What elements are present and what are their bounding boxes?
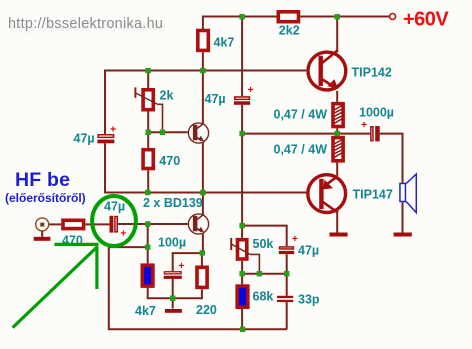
node: Q2 emitter / 100u + 220	[200, 250, 205, 255]
wire: base node down and left to bottom feedback rail	[109, 224, 287, 329]
node: base rail / 2k top	[146, 68, 151, 73]
svg-text:2k: 2k	[160, 89, 174, 103]
svg-text:220: 220	[196, 303, 217, 317]
capacitor 47u (x=242 electrolytic)	[234, 84, 254, 105]
node: divider row / 50k wiper	[257, 271, 262, 276]
node: top rail / x=242	[239, 14, 244, 19]
wire: jack to 470	[49, 223, 61, 225]
node: Q1 base / 2k bottom	[146, 130, 151, 135]
capacitor 47u (input, circled)	[110, 216, 127, 240]
node: output row / x=242	[239, 131, 244, 136]
resistor 470 (input, horizontal)	[63, 220, 84, 228]
svg-text:+: +	[110, 124, 116, 136]
svg-text:4k7: 4k7	[135, 304, 156, 318]
ground (TIP147 collector)	[330, 233, 348, 237]
wire: node row y=132.3 (2k wiper to BD139 base)	[148, 131, 188, 133]
annotation: green arrow	[13, 244, 99, 327]
ground (input jack)	[34, 237, 51, 241]
wire: 68k to bottom rail	[241, 309, 243, 329]
trimmer 50k	[231, 238, 259, 284]
resistor 4k7 (bottom, blue highlighted)	[142, 247, 202, 298]
node: divider row / 50k bottom	[239, 271, 244, 276]
speaker	[400, 174, 416, 233]
node: top rail / TIP142 collector	[335, 14, 340, 19]
transistor Q1 BD139 (bias)	[188, 71, 208, 193]
svg-text:470: 470	[159, 154, 180, 168]
wire: 470 to input cap	[85, 223, 109, 225]
wire: feedback tap row y=225.6 to 47u	[242, 226, 287, 247]
resistor 470 (vertical under 2k)	[143, 132, 153, 192]
node: Q2 base / 4k7 top	[145, 244, 150, 249]
svg-text:100µ: 100µ	[158, 235, 186, 249]
svg-text:2k2: 2k2	[279, 24, 300, 38]
node junctions (green squares)	[145, 14, 340, 332]
svg-text:68k: 68k	[253, 289, 274, 303]
capacitor 100u	[164, 253, 203, 298]
node: feedback tap / x=242	[239, 223, 244, 228]
capacitor 1000u (output electrolytic)	[361, 119, 380, 141]
node: Q1 base / 2k wiper	[160, 130, 165, 135]
svg-text:+: +	[361, 119, 367, 131]
wire: feedback divider row y=273.7	[242, 273, 287, 275]
wire: top rail left segment (node A to 2k2)	[203, 17, 277, 29]
svg-text:TIP147: TIP147	[353, 188, 393, 202]
svg-text:47µ: 47µ	[298, 244, 319, 258]
svg-text:4k7: 4k7	[214, 36, 235, 50]
transistor TIP142 (NPN darlington)	[308, 17, 346, 102]
svg-text:+60V: +60V	[403, 9, 449, 31]
resistor 0,47/4W (lower, hatched)	[333, 134, 343, 176]
ground (speaker)	[394, 233, 412, 237]
svg-text:TIP142: TIP142	[352, 66, 392, 80]
node: divider row / 47u + 33p	[284, 271, 289, 276]
transistor TIP147 (PNP darlington)	[308, 175, 346, 233]
wire: base rail y=70.5	[105, 71, 306, 135]
svg-text:1000µ: 1000µ	[359, 105, 394, 119]
node: bias rail / Q1 emitter Q2 collector	[200, 190, 205, 195]
wire: vertical line x=242 from top rail to 47u decoupling cap	[241, 17, 243, 97]
capacitor 33p	[277, 274, 293, 330]
svg-text:0,47 / 4W: 0,47 / 4W	[274, 142, 328, 156]
resistor 68k (blue highlighted)	[237, 286, 248, 307]
wire: x=242 line from cap down to output junction and feedback network	[241, 105, 243, 238]
capacitor 47u (feedback)	[279, 234, 298, 274]
svg-text:47µ: 47µ	[104, 199, 125, 213]
svg-text:+: +	[248, 84, 254, 96]
resistor 220	[197, 253, 207, 287]
wire: output node row y=133.6	[242, 133, 370, 135]
svg-text:47µ: 47µ	[205, 92, 226, 106]
resistor 0,47/4W (upper, hatched)	[333, 104, 343, 134]
wire: input cap to BD139 base	[118, 223, 188, 225]
transistor Q2 BD139 (input)	[188, 193, 208, 254]
annotation: green circle around input cap	[92, 196, 136, 246]
input jack	[36, 218, 49, 237]
resistor 4k7 (top, vertical)	[198, 31, 209, 51]
svg-text:0,47 / 4W: 0,47 / 4W	[274, 107, 328, 121]
trimmer 2k	[135, 71, 162, 133]
svg-text:+: +	[121, 229, 127, 240]
resistor 2k2 (horizontal)	[278, 12, 298, 22]
svg-text:HF be: HF be	[15, 169, 70, 191]
watermark text	[8, 16, 163, 32]
node: bottom rail / 68k	[240, 327, 245, 332]
node: output row / emitter resistors	[335, 131, 340, 136]
svg-text:33p: 33p	[298, 292, 320, 306]
svg-text:2 x BD139: 2 x BD139	[143, 196, 203, 210]
node: bias rail / 470 bottom	[145, 190, 150, 195]
svg-text:(előerősítőről): (előerősítőről)	[5, 191, 86, 205]
wire: top rail right segment (2k2 to +60V terminal)	[300, 16, 389, 18]
wire: left cap bottom down to bias rail y=192.5	[105, 143, 307, 192]
ground (emitter network)	[165, 298, 182, 313]
wire: 1000u to speaker	[380, 134, 403, 183]
svg-text:50k: 50k	[253, 237, 274, 251]
node: input / Q2 base	[145, 221, 150, 226]
node: emitter network ground tie	[170, 296, 175, 301]
svg-text:47µ: 47µ	[74, 131, 95, 145]
node: base rail / 4k7 + Q1 collector	[200, 68, 205, 73]
capacitor 47u (left bias bypass)	[97, 124, 116, 144]
svg-text:+: +	[179, 261, 185, 272]
+60V terminal (open circle)	[390, 14, 396, 20]
wire: 4k7 bottom to base rail	[202, 52, 204, 70]
